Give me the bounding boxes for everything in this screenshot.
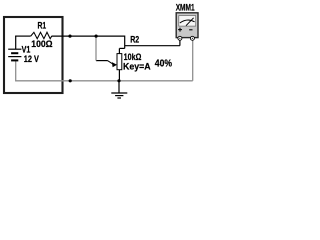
wire R2 top pin bbox=[118, 48, 120, 53]
svg-text:XMM1: XMM1 bbox=[176, 3, 195, 13]
svg-text:40%: 40% bbox=[155, 58, 173, 69]
wire wiper vertical gray bbox=[95, 36, 97, 61]
wire R1 to corner at R2 bbox=[52, 35, 125, 37]
XMM1 plus sign bbox=[178, 28, 182, 32]
XMM1 needle bbox=[186, 18, 194, 26]
ground symbol bbox=[111, 93, 127, 98]
wire jog to R2 top bbox=[119, 47, 124, 49]
wire XMM1 minus vertical gray bbox=[192, 40, 194, 81]
XMM1 scale arc bbox=[180, 20, 195, 23]
junction node dot ground bbox=[117, 79, 120, 82]
svg-text:100Ω: 100Ω bbox=[31, 39, 52, 49]
wiper arrowhead bbox=[112, 62, 117, 67]
junction node dot top bbox=[68, 35, 71, 38]
wire XMM1 plus vertical bbox=[179, 40, 181, 46]
wire bottom rail gray bbox=[15, 80, 193, 82]
svg-text:V1: V1 bbox=[22, 44, 31, 54]
XMM1 minus sign bbox=[189, 29, 192, 31]
svg-text:R1: R1 bbox=[38, 21, 47, 31]
potentiometer R2 body bbox=[117, 54, 122, 70]
wire top segment to R1 bbox=[15, 35, 31, 37]
wire XMM1 plus branch horizontal bbox=[125, 45, 180, 47]
junction node dot bottom bbox=[69, 79, 72, 82]
wiper slant wire bbox=[108, 61, 114, 65]
wire corner down to node bbox=[124, 36, 126, 49]
multimeter XMM1 body bbox=[176, 13, 198, 38]
XMM1 meter face bbox=[179, 16, 196, 27]
wire battery bottom stem gray bbox=[15, 61, 17, 81]
resistor R1 zigzag bbox=[31, 32, 52, 38]
svg-text:R2: R2 bbox=[130, 35, 139, 45]
annotation rectangle around V1 bbox=[4, 17, 63, 93]
wire battery top stem bbox=[15, 36, 17, 49]
wire ground stem bbox=[118, 81, 120, 93]
wire R2 bottom pin bbox=[118, 70, 120, 81]
wire wiper horizontal bbox=[96, 60, 108, 62]
svg-text:12 V: 12 V bbox=[24, 54, 39, 64]
battery V1 symbol bbox=[8, 49, 21, 60]
junction node dot wiper bbox=[95, 35, 98, 38]
svg-text:Key=A: Key=A bbox=[123, 62, 151, 72]
XMM1 terminal plus bbox=[178, 36, 182, 40]
XMM1 terminal minus bbox=[190, 36, 194, 40]
